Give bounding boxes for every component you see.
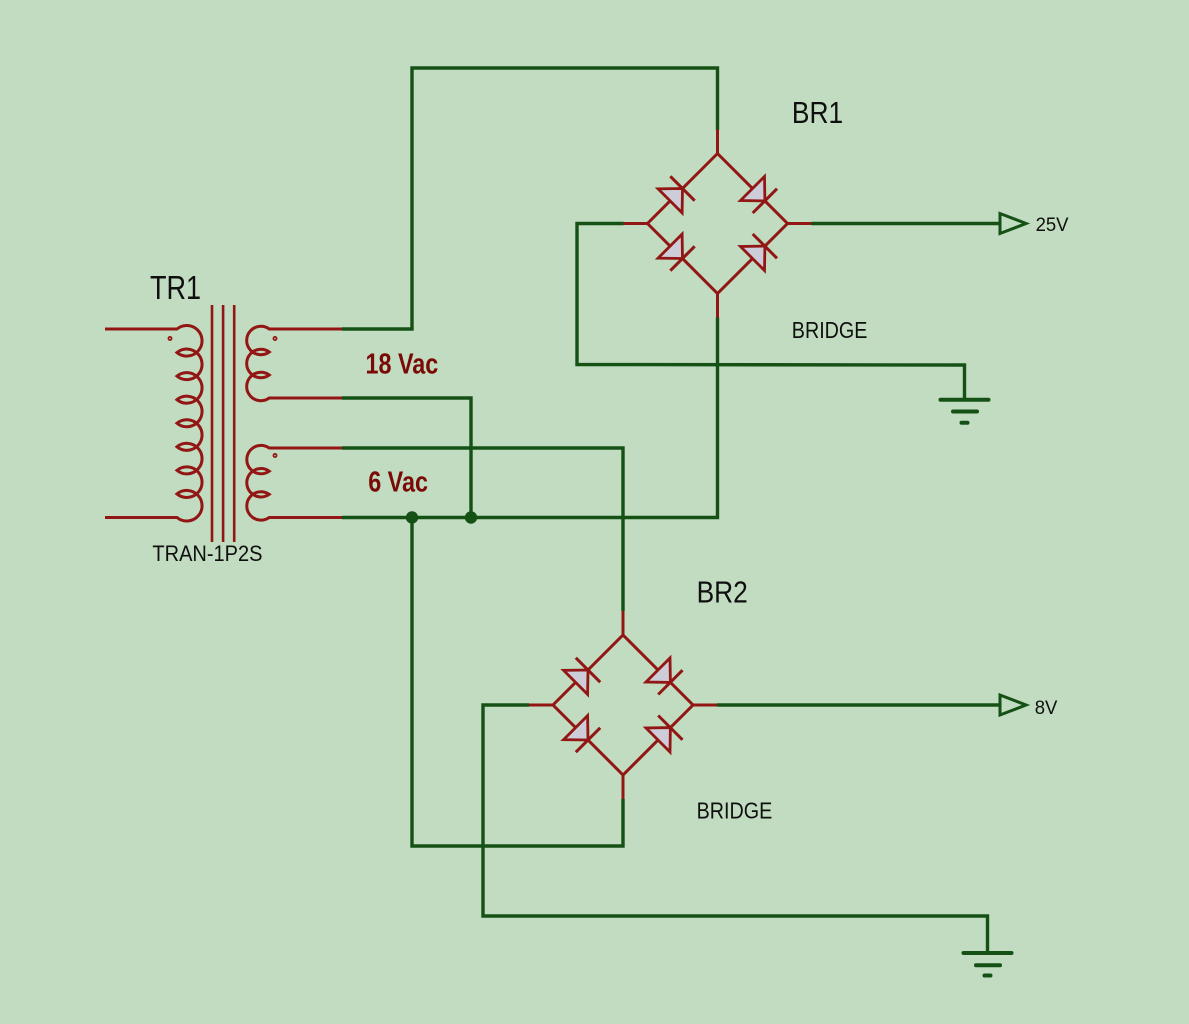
transformer TR1 secondary winding 1 (18V) — [247, 326, 342, 400]
svg-text:BR2: BR2 — [697, 575, 748, 609]
BR1 pin stub left — [624, 222, 648, 225]
junction dot B (471,517) — [465, 511, 477, 523]
BR2 pin stub bottom — [622, 775, 625, 799]
BR2 diode D2 (top->right) — [646, 658, 670, 682]
wire net6: BR1 left to ground — [577, 224, 965, 399]
wire net4: center tap line to BR1 bottom — [342, 318, 718, 518]
BR1 pin stub right — [788, 222, 812, 225]
svg-text:8V: 8V — [1035, 697, 1058, 719]
BR1 diode D1 (left->top) — [658, 189, 682, 213]
BR1 pin stub bottom — [716, 294, 719, 318]
BR2 pin stub left — [529, 704, 553, 707]
terminal 25V arrow — [1000, 214, 1026, 234]
svg-text:BRIDGE: BRIDGE — [697, 797, 773, 824]
svg-text:18 Vac: 18 Vac — [366, 347, 439, 380]
wire net9: BR2 right to 8V terminal — [717, 703, 1000, 706]
BR2 diamond edges — [553, 635, 693, 775]
ground (lower, BR2 negative) — [964, 953, 1012, 976]
BR1 pin stub top — [716, 130, 719, 154]
BR1 diode D3 (left->bottom) — [658, 234, 682, 258]
BR1 diamond edges — [648, 154, 788, 294]
BR2 diode D4 (bottom->right) — [646, 728, 670, 752]
phase dot secondary 2 — [273, 454, 276, 457]
BR2 pin stub top — [622, 611, 625, 635]
terminal 8V arrow — [1000, 695, 1026, 715]
BR2 diode D1 (left->top) — [564, 670, 588, 694]
BR2 pin stub right — [693, 704, 717, 707]
svg-text:25V: 25V — [1036, 214, 1069, 236]
phase dot secondary 1 — [273, 337, 276, 340]
wire net2: 18Vac bottom down to center tap — [342, 398, 471, 518]
junction dot A (412,517) — [406, 511, 418, 523]
svg-text:BR1: BR1 — [792, 96, 843, 130]
transformer TR1 primary winding — [105, 325, 202, 521]
svg-text:TR1: TR1 — [150, 271, 201, 307]
wire net5: center tap down to BR2 bottom — [412, 518, 623, 847]
wire net7: BR1 right to 25V terminal — [812, 222, 1001, 225]
wire net1: 18Vac top to BR1 top — [342, 68, 718, 329]
BR2 diode D3 (left->bottom) — [564, 716, 588, 740]
wire net8: BR2 left to ground — [483, 705, 988, 951]
transformer TR1 secondary winding 2 (6V) — [247, 445, 342, 520]
phase dot primary — [168, 337, 171, 340]
transformer TR1 core — [212, 305, 234, 542]
svg-text:6 Vac: 6 Vac — [368, 465, 428, 498]
BR1 diode D4 (bottom->right) — [741, 246, 765, 270]
wire net3: 6Vac top to BR2 top — [342, 448, 623, 611]
svg-text:TRAN-1P2S: TRAN-1P2S — [152, 542, 262, 566]
BR1 diode D2 (top->right) — [741, 177, 765, 201]
ground (upper, BR1 negative) — [941, 400, 989, 423]
svg-text:BRIDGE: BRIDGE — [792, 316, 868, 343]
